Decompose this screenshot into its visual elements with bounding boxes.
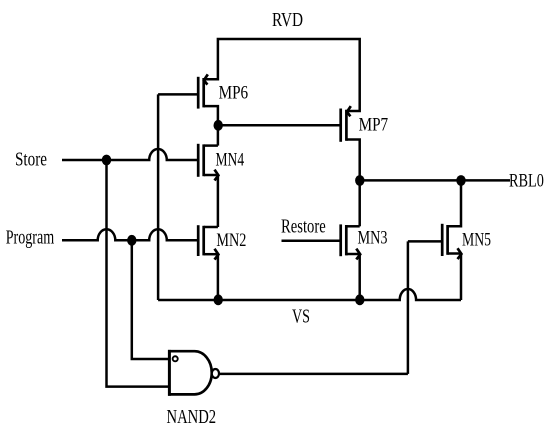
junction dot: RBL0 / MN5 drain tap: [456, 175, 465, 186]
nmos MN5: [442, 181, 461, 260]
junction dot: MN2 source on VS: [214, 294, 223, 305]
junction dot: MN3 source on VS: [355, 294, 364, 305]
junction dot: Program node: [127, 235, 136, 246]
wire: MN5 gate to NAND2 output riser: [408, 240, 442, 243]
wire: left vertical from MP6 gate down to VS: [157, 94, 160, 300]
wire: Store line with hop over left vertical: [62, 149, 197, 160]
wire: RBL0 line: [360, 179, 510, 182]
wire: MN3 source down to VS: [358, 254, 361, 300]
wire: Restore to MN3 gate: [282, 240, 341, 243]
nmos MN4: [198, 144, 218, 181]
wire: NAND2 output line: [219, 373, 408, 376]
svg-text:MP7: MP7: [359, 114, 389, 135]
svg-text:RVD: RVD: [272, 8, 303, 30]
wire: MP6 gate stub: [158, 93, 198, 96]
junction dot: node A (MP6 drain): [214, 120, 223, 131]
svg-text:VS: VS: [292, 305, 310, 327]
wire: Program node down to NAND2 input A: [132, 240, 168, 359]
svg-text:MN4: MN4: [216, 148, 245, 170]
svg-text:MP6: MP6: [219, 82, 249, 103]
svg-text:RBL0: RBL0: [509, 169, 544, 190]
svg-text:NAND2: NAND2: [167, 405, 217, 428]
pmos MP6: [198, 74, 218, 125]
wire: node A to MP7 gate: [218, 124, 340, 127]
wire: Store node down to NAND2 input B: [107, 160, 169, 387]
wire: VS line with hop over riser: [158, 289, 461, 300]
svg-text:MN2: MN2: [216, 229, 246, 251]
nmos MN3: [341, 224, 361, 259]
wire: MN2 source down to VS: [217, 255, 220, 301]
pmos MP7: [341, 106, 360, 180]
junction dot: Store node: [102, 155, 111, 166]
wire: MP7 drain down to MN3 drain: [358, 180, 361, 226]
svg-text:MN5: MN5: [462, 228, 491, 250]
wire: riser from NAND2 output up to MN5 gate: [407, 241, 410, 374]
wire: node A down to MN4 drain: [217, 125, 220, 145]
wire: Program line with hops: [62, 229, 197, 240]
svg-text:MN3: MN3: [358, 227, 388, 249]
junction dot: RBL0 node at MP7 drain: [355, 175, 364, 186]
nand NAND2 inner input circle: [173, 356, 178, 361]
svg-text:Program: Program: [6, 226, 55, 248]
wire: MN4 source to MN2 drain: [217, 175, 220, 227]
wire: RVD rail with drops to MP6 and MP7 sources: [204, 39, 360, 111]
nmos MN2: [198, 225, 218, 259]
nand gate NAND2 body: [168, 350, 212, 396]
nand NAND2 output bubble: [212, 369, 219, 378]
svg-text:Store: Store: [15, 147, 47, 170]
wire: MN5 source down to VS right end: [460, 254, 463, 300]
svg-text:Restore: Restore: [281, 214, 326, 237]
